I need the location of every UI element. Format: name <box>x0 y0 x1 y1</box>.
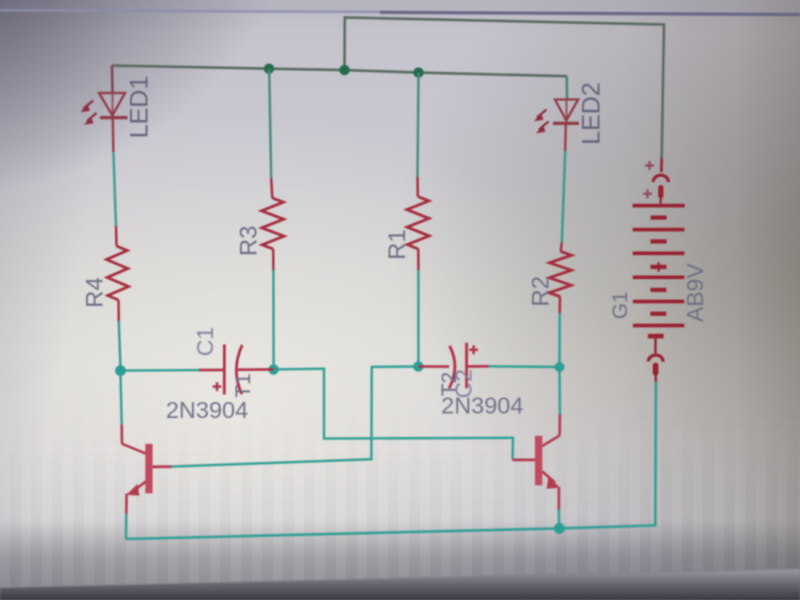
capacitor C1 <box>199 345 274 395</box>
svg-text:LED2: LED2 <box>578 82 606 145</box>
screen top edge line <box>0 0 800 15</box>
node: dot C2 left (node3) <box>413 361 423 371</box>
node: dot bottom emitter join <box>554 523 565 534</box>
wire: node3 to Q1 base (staircase) <box>172 367 419 467</box>
svg-text:AB9V: AB9V <box>682 263 708 322</box>
wire: top rail riser <box>345 18 665 159</box>
wire: R3 top <box>269 69 271 179</box>
wire: top V+ bus <box>112 66 567 77</box>
node: junction dot bus-left <box>264 63 274 73</box>
svg-text:2N3904: 2N3904 <box>166 397 248 423</box>
LED D2 symbol <box>553 100 579 124</box>
node: junction dot bus-mid <box>339 65 349 75</box>
wire: LED2 cathode to R2 <box>564 124 567 151</box>
screen bottom edge band <box>0 569 800 600</box>
node: dot C1 left (node1) <box>115 365 126 376</box>
wire: R1 bottom to node3 <box>417 270 419 362</box>
wire: R3 bottom to node2 <box>272 270 275 365</box>
svg-text:R2: R2 <box>527 276 554 307</box>
svg-text:C1: C1 <box>192 327 218 356</box>
svg-text:G1: G1 <box>609 291 632 319</box>
transistor Q1 <box>122 425 172 514</box>
wire: R1 top <box>418 73 419 177</box>
wire: LED1 anode stub <box>111 66 114 93</box>
wire: C2 right to node4 <box>488 365 559 368</box>
wire: LED2 branch drop <box>566 76 569 99</box>
svg-text:R4: R4 <box>82 277 109 308</box>
svg-text:T1: T1 <box>232 373 255 398</box>
node: dot C1 right (node2) <box>268 364 278 374</box>
svg-text:R3: R3 <box>235 225 262 256</box>
wire: node1 down to Q1 collector <box>120 371 121 425</box>
svg-text:LED1: LED1 <box>126 76 154 139</box>
wire: LED1 cathode to R4 <box>111 118 114 152</box>
LED1 emission arrows <box>81 101 97 125</box>
capacitor C2 <box>418 343 488 389</box>
battery G1 <box>633 158 685 382</box>
resistor R3 <box>262 179 285 271</box>
node: junction dot bus-right <box>413 67 423 77</box>
wire: R2 bottom to node4 <box>558 313 561 367</box>
wire: R4 to node1 <box>119 321 121 366</box>
resistor R1 <box>407 177 429 270</box>
wire: node4 down to Q2 collector <box>558 367 561 415</box>
wire: Q2 emitter down <box>558 510 561 529</box>
LED2 emission arrows <box>534 110 549 134</box>
svg-text:2N3904: 2N3904 <box>441 393 523 419</box>
wire: node2 to Q2 base (staircase) <box>274 369 513 460</box>
wire: Q1 emitter down <box>125 514 128 540</box>
svg-text:R1: R1 <box>384 229 411 260</box>
wire: bottom ground run <box>126 382 656 539</box>
transistor Q2 <box>513 415 560 510</box>
resistor R2 <box>549 243 572 314</box>
node: dot C2 right (node4) <box>555 362 565 372</box>
wire: node1 to C1 left <box>120 369 199 372</box>
LED D1 symbol <box>99 93 128 118</box>
battery plus marks <box>643 161 654 198</box>
resistor R4 <box>107 226 129 321</box>
